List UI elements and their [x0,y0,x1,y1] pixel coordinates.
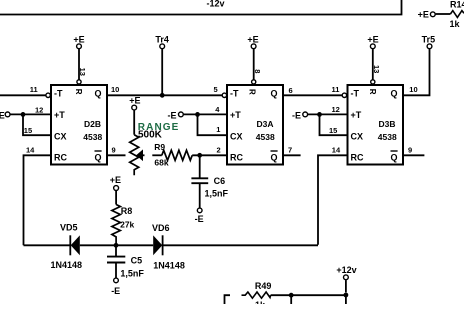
svg-text:11: 11 [332,85,340,94]
wire +E to R14 [436,13,451,15]
svg-text:Tr4: Tr4 [155,35,169,45]
junction node [289,293,294,298]
svg-text:-T: -T [230,89,239,99]
wire VD6 to D3B RC [163,244,318,246]
svg-text:Q: Q [271,89,278,99]
svg-text:+E: +E [110,175,121,185]
capacitor C5 [107,257,125,263]
svg-text:-E: -E [292,110,301,120]
op IC D2B 4538 [51,85,107,165]
resistor R8 [112,205,120,246]
svg-text:Q: Q [391,152,398,162]
resistor R14 [450,11,464,18]
svg-text:RC: RC [54,152,67,162]
svg-text:CX: CX [230,132,243,142]
svg-text:Tr5: Tr5 [422,35,436,45]
svg-text:+E: +E [418,10,429,20]
wire D2B RC pin 14 to VD5 [24,155,52,245]
svg-text:1N4148: 1N4148 [153,260,185,270]
wire C6 tap down [199,155,201,178]
svg-text:+12v: +12v [336,265,356,275]
svg-text:-E: -E [0,111,5,121]
wire VD5 anode row [24,244,71,246]
svg-text:Q: Q [95,89,102,99]
potentiometer wiper arrow [137,151,143,161]
wire +E down to D3A reset pin [253,49,255,80]
svg-text:1N4148: 1N4148 [51,260,83,270]
junction node C5/R8 [114,243,119,248]
svg-text:R14: R14 [450,0,464,10]
wire +E down to D3B reset pin [372,49,374,80]
svg-text:R8: R8 [121,206,133,216]
wire C6 to -E [199,183,201,208]
svg-text:R49: R49 [255,281,272,291]
svg-text:-E: -E [168,110,177,120]
reset bubble D3B pin 13 [371,80,375,84]
wire Tr5 down to D3B Q pin 10 [403,49,430,96]
junction node [195,112,200,117]
svg-text:4538: 4538 [83,132,102,142]
diode VD5 [51,222,83,270]
wire bottom net left corner [225,295,231,304]
svg-text:13: 13 [78,68,87,76]
svg-text:-E: -E [111,286,120,296]
wire branch to D3A CX pin 1 [198,114,228,135]
svg-text:+T: +T [54,110,65,120]
svg-text:+E: +E [129,96,140,106]
svg-text:CX: CX [54,132,67,142]
wire R9 to D3A RC pin 2 [192,154,227,156]
svg-text:14: 14 [332,146,341,155]
wire wiper to R9 [143,154,145,156]
bubble D3B -T pin 11 [342,93,346,97]
svg-text:+E: +E [367,35,378,45]
svg-text:1,5nF: 1,5nF [120,269,144,279]
wire D2B Q pin 10 to D3A pin 5 [107,94,222,96]
svg-text:1k: 1k [450,19,461,29]
junction node C6 tap [197,153,202,158]
svg-text:+E: +E [247,35,258,45]
diode VD6 [152,223,185,270]
svg-text:27k: 27k [120,219,134,229]
junction node +12v [344,293,349,298]
wire -E to D3B pin 12 [308,113,348,115]
svg-text:9: 9 [408,146,412,155]
svg-text:12: 12 [332,105,340,114]
svg-text:-12v: -12v [207,0,225,9]
wire VD5 to node [80,244,153,246]
wire D2B pin 11 input [0,94,46,96]
wire Tr4 down to Q net [161,49,163,96]
svg-text:R9: R9 [154,142,165,152]
svg-text:CX: CX [351,132,364,142]
bubble D3A -T pin 5 [222,93,226,97]
svg-text:1,5nF: 1,5nF [205,188,229,198]
svg-text:5: 5 [214,85,218,94]
svg-text:Q: Q [95,152,102,162]
wire D3B RC pin 14 to VD6 [318,155,348,245]
svg-text:15: 15 [24,126,32,135]
wire +12v junction down [345,295,347,304]
wire -E to D3A pin 4 [184,113,227,115]
potentiometer RANGE 500K body [130,135,139,176]
junction node Tr4 [160,93,165,98]
svg-text:D3B: D3B [379,119,396,129]
resistor R49 [242,292,271,298]
svg-text:11: 11 [30,85,38,94]
wire D3A Q pin 6 to D3B pin 11 [283,94,342,96]
svg-text:10: 10 [409,85,417,94]
svg-text:7: 7 [288,146,292,155]
wire +12v to net [345,280,347,292]
svg-text:-E: -E [195,214,204,224]
op IC D3B 4538 [348,85,404,165]
svg-text:2: 2 [217,146,221,155]
svg-text:R: R [248,89,257,95]
wire branch to D3B CX pin 15 [320,114,348,135]
reset bubble D3A pin 8 [252,80,256,84]
junction node [317,112,322,117]
svg-text:VD6: VD6 [152,223,170,233]
svg-text:13: 13 [372,65,381,73]
svg-text:Q: Q [271,152,278,162]
wire -E to D2B pin 12 [10,113,51,115]
svg-text:4538: 4538 [378,132,397,142]
wire +E to R8 [115,191,117,205]
svg-text:14: 14 [26,146,35,155]
svg-text:4538: 4538 [256,132,275,142]
svg-text:1: 1 [216,125,220,134]
capacitor C6 [191,178,208,183]
svg-text:12: 12 [35,106,43,115]
svg-text:15: 15 [329,126,337,135]
svg-text:Q: Q [391,89,398,99]
svg-text:VD5: VD5 [60,222,78,232]
wire junction down [290,295,292,304]
bubble D2B -T pin 11 [46,93,50,97]
svg-text:8: 8 [253,69,262,73]
svg-text:68k: 68k [154,158,168,168]
wire D2B Q pin 9 to potentiometer wiper [107,154,126,156]
svg-text:C5: C5 [131,255,143,265]
svg-text:9: 9 [112,146,116,155]
wire D3B Q pin 9 stub [403,154,424,156]
wire +E to potentiometer [133,110,135,134]
svg-text:D3A: D3A [257,119,274,129]
svg-text:1k: 1k [255,300,266,304]
wire branch to D2B CX pin 15 [23,114,51,135]
svg-text:500K: 500K [138,129,163,140]
terminal -E (C6 bottom) [197,208,202,213]
reset bubble D2B pin 13 [77,80,81,84]
wire R49 to +12v node [271,294,346,296]
svg-text:-T: -T [54,89,63,99]
wire C5 to -E [115,263,117,279]
svg-text:R: R [368,89,377,95]
wire C5 top [115,245,117,256]
svg-text:R: R [74,89,83,95]
svg-text:10: 10 [111,85,119,94]
resistor R9 [162,150,192,160]
op IC D3A 4538 [227,85,283,165]
terminal -E (C5 bottom) [114,278,119,283]
svg-text:D2B: D2B [84,119,101,129]
junction node [21,112,26,117]
svg-text:RC: RC [351,152,364,162]
wire -12v top rail [0,0,402,15]
svg-text:+E: +E [73,35,84,45]
svg-text:C6: C6 [214,176,226,186]
svg-text:+T: +T [230,110,241,120]
svg-text:-T: -T [351,89,360,99]
wire +E down to D2B reset pin [78,49,80,80]
svg-text:6: 6 [289,86,293,95]
svg-text:RC: RC [230,152,243,162]
wire D3A Q pin 7 stub [283,154,301,156]
svg-text:+T: +T [351,110,362,120]
